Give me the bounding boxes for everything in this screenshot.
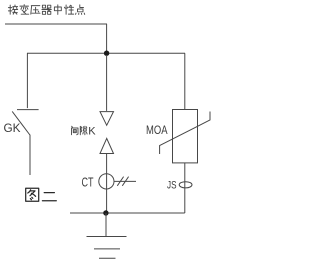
接 (8, 5, 17, 14)
wire: CT secondary tail (114, 180, 136, 182)
二 (42, 193, 56, 201)
switch GK blade (12, 111, 30, 135)
wire: lead from neutral label (5, 23, 107, 25)
arrester MOA body (173, 110, 198, 163)
svg-text:MOA: MOA (146, 123, 168, 137)
node label 接变压器中性点 (transformer neutral point) (8, 5, 84, 15)
junction dot (bottom bus / ground) (103, 210, 108, 215)
wire: bottom bus (70, 212, 185, 214)
spark gap upper electrode (down triangle) (100, 112, 114, 126)
间 (72, 126, 79, 134)
current transformer CT (99, 174, 114, 189)
wire: gap branch upper (106, 55, 108, 111)
spark gap lower electrode (up triangle) (100, 138, 114, 153)
svg-text:K: K (88, 126, 96, 138)
隙 (80, 126, 87, 135)
wire: vertical drop to top bus (106, 24, 108, 53)
wire: GK branch lower (open end) (29, 135, 31, 175)
svg-text:CT: CT (82, 174, 94, 189)
junction dot (top bus / gap branch) (104, 51, 109, 56)
ground (87, 237, 127, 259)
switch GK fixed contact bar (17, 109, 39, 111)
点 (76, 5, 85, 15)
中 (54, 5, 61, 15)
压 (31, 6, 40, 15)
caption 图二 (Figure 2) (26, 188, 57, 201)
svg-text:JS: JS (167, 179, 177, 191)
wire: ground stem (105, 213, 107, 236)
图 (26, 188, 39, 201)
svg-text:GK: GK (4, 121, 21, 135)
wire: MOA branch upper (184, 53, 186, 109)
counter JS (179, 182, 192, 188)
CT secondary double-slash (117, 177, 128, 186)
wire: top bus (27, 52, 185, 54)
性 (64, 5, 73, 14)
器 (42, 5, 51, 14)
MOA varistor stroke (160, 112, 210, 155)
wire: GK branch upper (26, 53, 28, 108)
wire: MOA branch lower (184, 163, 186, 213)
wire: gap branch lower through CT to bottom bus (106, 154, 108, 214)
label 间隙K (72, 126, 88, 135)
变 (20, 5, 29, 15)
